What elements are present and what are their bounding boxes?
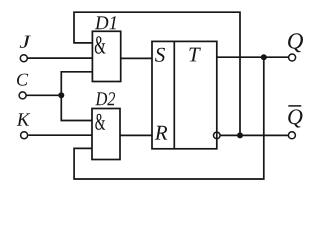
divider of block T: [173, 41, 175, 148]
RS trigger block T: [152, 41, 217, 148]
input terminal C: [19, 92, 26, 99]
label J: [20, 36, 31, 48]
wire K to D2 input 2: [28, 134, 92, 136]
inversion bubble on Qbar output: [214, 132, 221, 139]
wire D1 output to S: [121, 57, 152, 59]
output terminal Qbar: [288, 132, 295, 139]
output terminal Q: [289, 54, 296, 61]
junction dot Q feedback: [261, 54, 267, 60]
wire J to D1 input 2: [28, 57, 93, 59]
label ampersand of D2: [95, 114, 105, 130]
label C: [17, 74, 28, 86]
label Qbar: [288, 109, 302, 127]
label Q: [288, 33, 303, 52]
label D2: [95, 92, 115, 105]
wire Q output: [217, 56, 289, 58]
wire Qbar output: [220, 134, 288, 136]
wire C branch to D1 input 3 and D2 input 1: [61, 72, 92, 121]
label K: [17, 113, 31, 125]
wire D2 output to R: [120, 134, 152, 136]
pin label R: [155, 126, 168, 140]
wire Q feedback to D2 input 3: [74, 57, 264, 179]
pin label S: [155, 48, 165, 62]
junction dot C branch: [58, 92, 64, 98]
label ampersand of D1: [95, 36, 106, 54]
label T: [189, 48, 201, 62]
wire C to junction: [26, 94, 61, 96]
AND gate D1: [92, 31, 120, 81]
wire top feedback from Qbar line to D1 input 1: [74, 12, 240, 135]
input terminal J: [20, 55, 27, 62]
label D1: [95, 16, 116, 29]
AND gate D2: [92, 109, 120, 160]
overline of Qbar label: [288, 105, 301, 107]
junction dot Qbar feedback: [237, 132, 243, 138]
input terminal K: [21, 132, 28, 139]
